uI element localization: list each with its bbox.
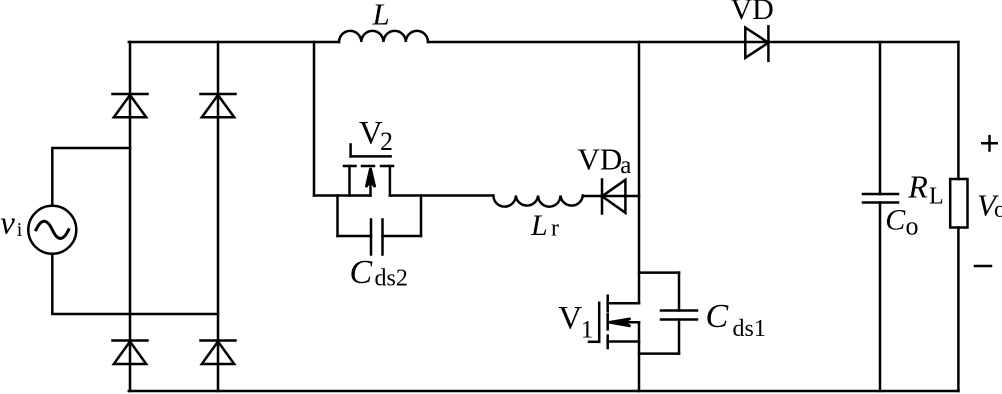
- svg-text:VD: VD: [731, 0, 774, 26]
- wire Lr to VDa: [583, 195, 639, 198]
- svg-text:VD: VD: [578, 142, 623, 177]
- minus sign: [975, 265, 991, 268]
- diode VD: [745, 26, 768, 61]
- svg-text:1: 1: [581, 317, 594, 344]
- svg-text:a: a: [620, 152, 631, 179]
- wire bottom bus: [129, 390, 959, 393]
- wire V2 row left segment: [314, 194, 371, 197]
- wire bridge right branch: [217, 42, 220, 391]
- svg-text:r: r: [551, 216, 559, 242]
- wire V2 row right segment: [390, 194, 494, 197]
- svg-text:C: C: [350, 254, 373, 291]
- diode upper-right bridge: [201, 94, 236, 117]
- AC source vi circle: [28, 206, 76, 254]
- diode VDa: [602, 180, 625, 214]
- diode lower-left bridge: [113, 341, 148, 365]
- svg-text:ds1: ds1: [733, 316, 766, 342]
- svg-text:v: v: [0, 205, 15, 241]
- transistor V2 (horizontal MOSFET): [344, 145, 393, 196]
- transistor V1 (vertical MOSFET): [589, 296, 639, 348]
- wire middle branch lower: [638, 322, 641, 391]
- svg-text:ds2: ds2: [375, 266, 408, 292]
- wire bridge left branch: [129, 42, 132, 391]
- wire source bottom lead: [52, 254, 218, 314]
- wire top bus left segment: [129, 41, 339, 44]
- wire top bus middle segment: [428, 41, 958, 44]
- svg-text:L: L: [929, 184, 944, 210]
- svg-text:o: o: [994, 197, 1002, 223]
- diode lower-right bridge: [201, 341, 236, 365]
- capacitor Cds1: [639, 273, 697, 354]
- svg-text:C: C: [706, 298, 729, 335]
- svg-text:o: o: [906, 211, 919, 240]
- svg-text:V: V: [558, 301, 582, 337]
- svg-text:i: i: [17, 219, 23, 241]
- inductor Lr: [493, 196, 582, 207]
- resistor RL branch: [950, 42, 967, 391]
- svg-text:2: 2: [380, 127, 393, 156]
- svg-text:L: L: [530, 209, 548, 242]
- svg-text:L: L: [372, 0, 390, 32]
- inductor L: [339, 31, 428, 42]
- plus sign: [982, 136, 996, 150]
- wire branch from top bus down to V2 row: [313, 42, 316, 196]
- wire middle branch upper: [638, 42, 641, 303]
- diode upper-left bridge: [113, 94, 148, 117]
- wire source top lead: [52, 148, 130, 206]
- svg-text:R: R: [907, 169, 928, 205]
- capacitor Co branch: [863, 42, 898, 391]
- svg-text:C: C: [885, 203, 906, 236]
- capacitor Cds2: [338, 196, 422, 255]
